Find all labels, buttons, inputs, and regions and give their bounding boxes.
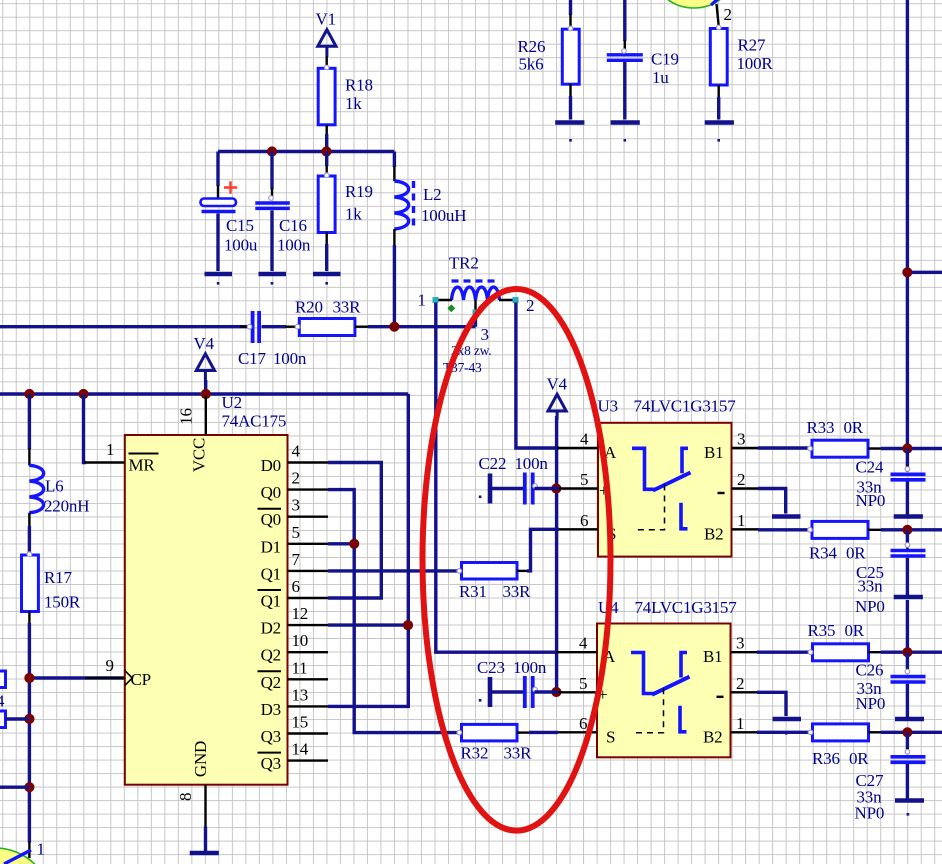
svg-text:13: 13 [292, 685, 309, 704]
svg-text:V4: V4 [547, 375, 568, 394]
svg-text:5: 5 [580, 470, 588, 489]
ground [555, 123, 584, 142]
svg-text:8: 8 [176, 793, 195, 801]
svg-text:B2: B2 [704, 524, 723, 543]
svg-text:D3: D3 [261, 700, 281, 719]
svg-text:33R: 33R [504, 744, 533, 763]
svg-text:7: 7 [292, 550, 301, 569]
junction [902, 525, 912, 535]
svg-text:4: 4 [579, 634, 588, 653]
svg-text:Q2: Q2 [261, 673, 281, 692]
svg-text:C17: C17 [238, 349, 266, 368]
capacitor C15 (electrolytic) [201, 181, 238, 211]
ground [205, 274, 233, 285]
wire L2 branch [393, 152, 396, 168]
svg-text:R20: R20 [295, 298, 323, 317]
svg-text:MR: MR [129, 456, 156, 475]
svg-text:9: 9 [106, 656, 114, 675]
svg-text:0R: 0R [845, 621, 865, 640]
wire U4 pin3 to R35 [757, 651, 811, 654]
svg-text:100n: 100n [515, 454, 549, 473]
svg-text:14: 14 [292, 740, 309, 759]
svg-text:0R: 0R [849, 749, 869, 768]
red annotation ellipse [423, 289, 611, 831]
svg-text:1k: 1k [345, 94, 362, 113]
pin CP (9) [29, 676, 124, 679]
wire TR2 pin3 drop [474, 313, 477, 327]
IC U3 74LVC1G3157 [598, 423, 732, 557]
svg-text:U3: U3 [598, 397, 618, 416]
svg-text:3: 3 [292, 496, 300, 515]
svg-text:D1: D1 [261, 537, 281, 556]
right power rail [906, 0, 909, 449]
wire to left edge [0, 786, 29, 789]
svg-text:VCC: VCC [190, 438, 209, 472]
svg-text:R27: R27 [738, 36, 766, 55]
svg-text:6: 6 [579, 714, 587, 733]
junction [551, 687, 561, 697]
resistor R17 [22, 555, 39, 612]
svg-text:3: 3 [736, 634, 744, 653]
svg-text:R32: R32 [461, 744, 489, 763]
svg-text:V1: V1 [316, 10, 336, 29]
svg-text:6: 6 [292, 577, 300, 596]
wire MR from V4 rail [84, 394, 87, 463]
U2 pin D0 (4) [261, 442, 328, 476]
svg-text:NP0: NP0 [856, 694, 886, 713]
pin MR (1) [85, 461, 125, 463]
svg-text:100R: 100R [737, 54, 774, 73]
wire R19 to gnd [326, 233, 328, 246]
svg-text:33R: 33R [503, 582, 532, 601]
wire C16 drop [270, 152, 273, 190]
junction [902, 267, 912, 277]
wire Q0 down to D1 and S-row of U4 [328, 490, 459, 733]
svg-text:1u: 1u [652, 68, 669, 87]
U2 pin Q1# (6) [258, 577, 329, 611]
wire D0 to Q1# loop [328, 463, 381, 599]
svg-text:S: S [606, 727, 615, 746]
svg-text:5: 5 [579, 674, 587, 693]
wire R31 to U3 S [517, 570, 528, 572]
svg-text:TR2: TR2 [449, 254, 479, 273]
U2 pin Q1 (7) [261, 550, 328, 584]
svg-text:74LVC1G3157: 74LVC1G3157 [635, 598, 738, 617]
svg-text:C24: C24 [856, 458, 884, 477]
svg-text:R19: R19 [345, 182, 373, 201]
wire to right edge [907, 271, 942, 274]
capacitor C27 [891, 732, 926, 798]
svg-text:D2: D2 [261, 619, 281, 638]
svg-text:10: 10 [292, 631, 309, 650]
svg-text:3: 3 [481, 325, 489, 344]
svg-text:3: 3 [737, 430, 745, 449]
wire V1 to R18 [326, 57, 328, 69]
svg-text:NP0: NP0 [855, 804, 885, 823]
resistor R19 [318, 176, 335, 233]
junction [321, 146, 331, 156]
resistor R34 [812, 521, 868, 538]
svg-text:R35: R35 [808, 621, 836, 640]
pin 2 to R27 [717, 4, 719, 26]
U2 pin Q0 (2) [261, 469, 328, 503]
ground [894, 597, 923, 615]
svg-text:U2: U2 [222, 393, 242, 412]
wire C16 to gnd [270, 210, 273, 271]
svg-text:NP0: NP0 [856, 491, 886, 510]
capacitor C16 [255, 203, 289, 208]
svg-text:R33: R33 [807, 418, 835, 437]
ground [894, 514, 923, 519]
IC U2 74AC175 [125, 435, 288, 785]
svg-text:2: 2 [292, 469, 300, 488]
wire TR2 pin2 rail down to U3 A [516, 303, 559, 449]
svg-text:220nH: 220nH [44, 497, 89, 516]
svg-text:Q1: Q1 [261, 564, 281, 583]
wire Q1 to R31 [328, 569, 459, 572]
svg-text:2: 2 [724, 5, 732, 24]
junction [78, 389, 88, 399]
capacitor C25 [891, 530, 926, 595]
svg-text:150R: 150R [44, 593, 81, 612]
junction [349, 539, 359, 549]
svg-text:4: 4 [580, 430, 589, 449]
wire C22 junction to U3 pin5 [556, 487, 559, 490]
svg-text:2: 2 [737, 470, 745, 489]
wire D1 stub to rail [328, 542, 354, 545]
svg-text:11: 11 [292, 658, 308, 677]
IC U4 74LVC1G3157 [597, 624, 731, 758]
svg-text:74LVC1G3157: 74LVC1G3157 [634, 397, 737, 416]
wire R20 to TR2 [355, 326, 369, 328]
wire V4 rail down through C22/C23 [555, 416, 558, 692]
svg-text:L2: L2 [423, 185, 441, 204]
resistor R26 [569, 0, 572, 15]
junction [902, 443, 912, 453]
svg-text:C16: C16 [279, 216, 307, 235]
svg-text:GND: GND [191, 741, 210, 777]
ground [313, 274, 341, 285]
ground [611, 123, 640, 142]
svg-text:B1: B1 [704, 443, 723, 462]
svg-text:L6: L6 [45, 477, 63, 496]
resistor (partial, left edge) [0, 711, 6, 728]
capacitor C19 [623, 0, 626, 41]
U2 pin Q3# (14) [258, 740, 329, 774]
capacitor C23 with ground [479, 676, 558, 708]
svg-text:1k: 1k [345, 205, 362, 224]
U3 pins 6/1 [557, 511, 759, 530]
U3 pins 5/2 [557, 470, 759, 489]
ground [772, 517, 801, 532]
svg-text:100uH: 100uH [421, 206, 466, 225]
svg-text:V4: V4 [194, 334, 215, 353]
svg-text:R17: R17 [44, 568, 72, 587]
junction [24, 782, 34, 792]
pin R18 bottom [326, 125, 328, 136]
pin L2 bottom [393, 229, 395, 246]
inductor L6 [29, 465, 43, 512]
U2 pin Q3 (15) [261, 713, 328, 747]
wire left rail down [28, 623, 31, 843]
svg-text:2: 2 [736, 674, 744, 693]
ground [705, 123, 734, 142]
svg-text:D0: D0 [261, 456, 281, 475]
U2 pin Q2# (11) [258, 658, 329, 692]
svg-text:C15: C15 [226, 216, 254, 235]
svg-text:Q0: Q0 [261, 510, 281, 529]
svg-text:Q2: Q2 [261, 646, 281, 665]
svg-text:15: 15 [292, 713, 309, 732]
svg-text:1: 1 [37, 840, 45, 859]
capacitor C24 [891, 449, 926, 516]
resistor R36 [813, 724, 869, 741]
inductor L2 [394, 181, 408, 229]
resistor R27 [710, 29, 727, 86]
pin VCC (16) [205, 396, 207, 435]
capacitor C17 [240, 326, 250, 328]
resistor (partial, left edge) [0, 671, 6, 688]
wire R19 top [325, 152, 328, 167]
oscillator circle (top right, partial) [653, 0, 735, 8]
ground [190, 851, 219, 856]
svg-text:4: 4 [0, 692, 5, 711]
U2 pin Q2 (10) [261, 631, 328, 665]
ground [895, 717, 924, 722]
svg-text:R31: R31 [459, 582, 487, 601]
resistor R32 [462, 724, 518, 741]
U2 pin D2 (12) [261, 604, 328, 638]
svg-text:33n: 33n [858, 577, 884, 596]
svg-text:R26: R26 [518, 37, 546, 56]
wire C17 to R20 [262, 325, 287, 328]
svg-text:C23: C23 [477, 658, 505, 677]
svg-text:0R: 0R [844, 418, 864, 437]
svg-text:100n: 100n [513, 658, 547, 677]
U4 pins 6/1 [556, 714, 758, 733]
svg-text:NP0: NP0 [855, 597, 885, 616]
svg-text:C26: C26 [856, 661, 884, 680]
wire U3 pin1 to R34 [758, 528, 811, 531]
svg-text:1: 1 [737, 511, 745, 530]
wire U3 pin2 to ground [758, 489, 786, 514]
wire U4 pin2 to ground [757, 692, 786, 716]
junction [24, 673, 34, 683]
capacitor C22 with ground [479, 473, 558, 505]
svg-text:12: 12 [292, 604, 309, 623]
wire U4 pin1 to R36 [757, 731, 811, 734]
svg-text:R36: R36 [812, 749, 840, 768]
svg-text:100n: 100n [273, 349, 307, 368]
svg-text:1: 1 [106, 440, 114, 459]
power symbol V1 [318, 30, 336, 57]
wire C15 to gnd [216, 214, 219, 272]
resistor R31 [462, 563, 518, 580]
svg-text:0R: 0R [846, 544, 866, 563]
U2 pin D3 (13) [261, 685, 328, 719]
wire V4 rail down to D2/D3 [328, 394, 408, 706]
svg-text:5: 5 [292, 523, 300, 542]
svg-text:Q3: Q3 [261, 754, 281, 773]
svg-text:16: 16 [177, 408, 196, 425]
U2 pin D1 (5) [261, 523, 328, 557]
capacitor C26 [891, 652, 926, 717]
pin GND (8) [204, 785, 206, 828]
rail above R35 junction [906, 600, 909, 652]
oscillator circle (bottom left, partial) [0, 848, 52, 864]
junction [902, 647, 912, 657]
svg-text:33R: 33R [333, 298, 362, 317]
ground [259, 274, 287, 285]
ground [895, 801, 924, 816]
resistor R18 [318, 68, 335, 125]
U4 pins 5/2 [556, 674, 758, 693]
wire C15 drop [216, 152, 219, 187]
svg-text:C22: C22 [479, 454, 507, 473]
svg-text:74AC175: 74AC175 [222, 412, 287, 431]
svg-text:100n: 100n [277, 236, 311, 255]
svg-text:B2: B2 [703, 727, 722, 746]
svg-text:4: 4 [292, 442, 301, 461]
wire D2 stub to rail [328, 623, 408, 626]
left rail from V4 [28, 394, 31, 449]
svg-text:R18: R18 [345, 76, 373, 95]
svg-text:C19: C19 [651, 50, 679, 69]
junction [389, 322, 399, 332]
junction [551, 483, 561, 493]
resistor R35 [813, 644, 869, 661]
svg-text:B1: B1 [703, 647, 722, 666]
svg-text:Q3: Q3 [261, 727, 281, 746]
junction [201, 389, 211, 399]
wire top rail y=151.5 [218, 150, 394, 153]
wire L2 to node [393, 245, 396, 327]
svg-text:Q0: Q0 [261, 483, 281, 502]
U3 pins 4/3 [557, 430, 759, 449]
resistor R33 [812, 440, 868, 457]
U4 pins 4/3 [556, 634, 758, 653]
svg-text:100u: 100u [224, 236, 258, 255]
junction [24, 389, 34, 399]
svg-text:2: 2 [526, 296, 534, 315]
junction [24, 714, 34, 724]
svg-text:5k6: 5k6 [519, 55, 544, 74]
svg-text:1: 1 [418, 291, 426, 310]
junction [403, 620, 413, 630]
svg-text:Q1: Q1 [261, 592, 281, 611]
junction [902, 727, 912, 737]
svg-text:1: 1 [736, 714, 744, 733]
svg-text:6: 6 [580, 511, 588, 530]
wire U3 pin3 to R33 [758, 446, 811, 449]
resistor R20 [299, 319, 355, 336]
U2 pin Q0# (3) [258, 496, 329, 530]
wire R18 to node [325, 134, 328, 152]
svg-text:CP: CP [131, 670, 151, 689]
ground [773, 719, 802, 735]
wire TR2 pin1 rail down to U4 A [436, 303, 558, 653]
svg-text:R34: R34 [809, 544, 837, 563]
wire R32 to U4 S [517, 731, 530, 733]
main horizontal wire y=326.7 [0, 325, 250, 328]
V4 feed rail y=394 [0, 392, 408, 395]
junction [267, 146, 277, 156]
